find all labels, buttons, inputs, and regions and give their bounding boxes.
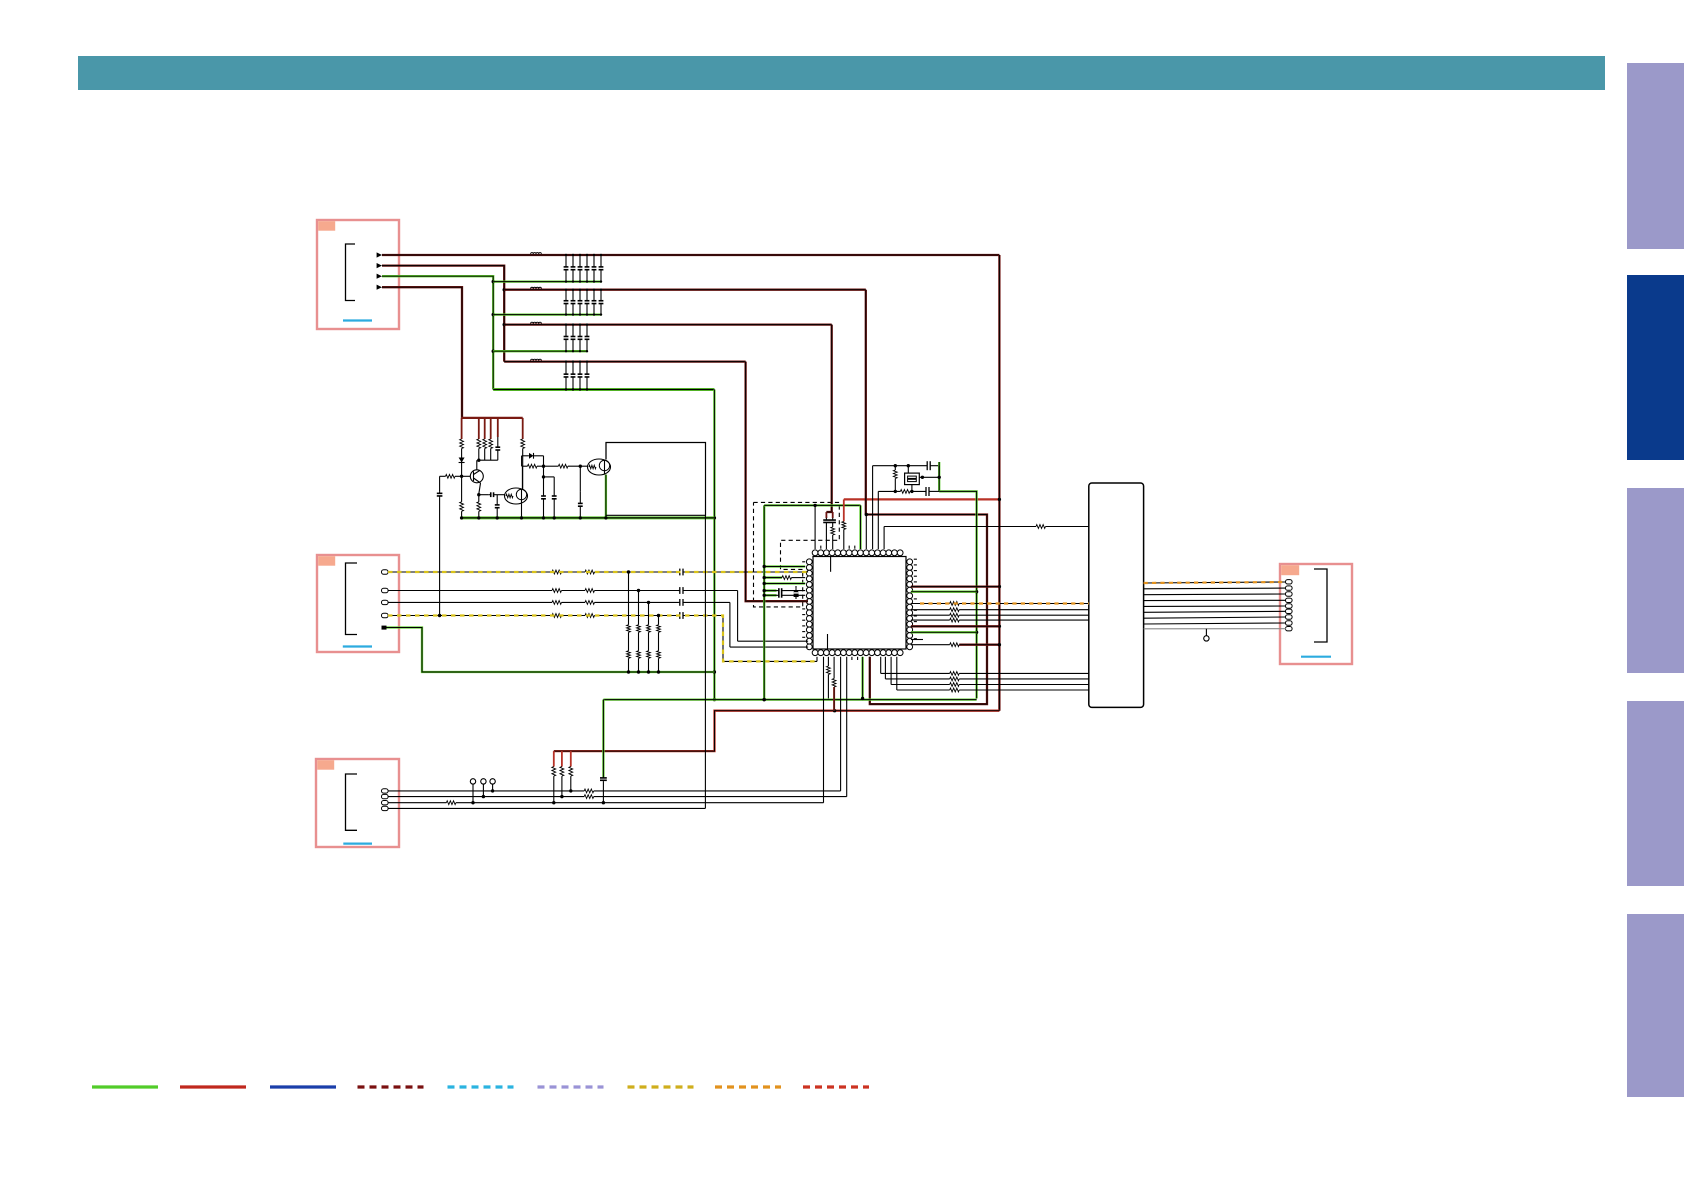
wire nc stub	[911, 639, 923, 641]
wire blk-J4 9 sense	[1144, 629, 1286, 636]
sidebar tab 5	[1627, 914, 1684, 1097]
IC U1 nc stubs	[802, 546, 917, 660]
junction net1-c	[998, 625, 1001, 628]
wire xtal to pin a	[872, 466, 874, 549]
wire Q2 emitter	[521, 504, 523, 518]
connector J2 pin 4	[382, 613, 389, 617]
wire net1 ICright e	[911, 625, 1000, 627]
wire net3 cluster link	[826, 511, 832, 513]
wire blk-J4 8	[1144, 623, 1286, 624]
wire J3.2	[388, 795, 847, 799]
connector J4 pin 2	[1286, 586, 1293, 590]
connector J1 pin 2	[377, 263, 382, 268]
legend purple dashed	[538, 1085, 604, 1088]
connector J2 link line	[343, 645, 372, 647]
resistor R14	[893, 466, 897, 492]
junction gnd-a	[492, 280, 495, 283]
junction J2.2 tap	[637, 589, 640, 592]
junction gnd-c	[492, 350, 495, 353]
wire J2.1 dash overlay	[388, 571, 808, 573]
wire gnd IC bottom	[861, 657, 863, 699]
sidebar tab 4	[1627, 701, 1684, 886]
IC U1 pin1 mark	[828, 557, 831, 650]
junction gnd-b	[492, 313, 495, 316]
resistor pair RP1	[627, 572, 631, 672]
connector J4 bracket	[1314, 569, 1327, 642]
capacitor C31	[830, 512, 836, 525]
resistor pair RP3	[647, 602, 651, 672]
junction J2.1 tap	[627, 570, 630, 573]
sidebar tab 3	[1627, 488, 1684, 673]
diode pair D3	[793, 586, 799, 599]
resistor R2	[477, 418, 481, 460]
connector J2 pin 5	[382, 626, 387, 630]
junction pullup-3	[569, 789, 572, 792]
wire net4 vertical	[746, 362, 808, 602]
resistor R4	[489, 418, 493, 460]
wire blk-J4 1 dash	[1144, 582, 1286, 583]
capacitor bank row1	[564, 254, 604, 283]
wire gnd bus row3	[493, 350, 587, 352]
wire net1 J1.1 horizontal	[382, 254, 999, 256]
wire net2 vertical	[865, 290, 867, 515]
wire J3.1	[388, 789, 841, 793]
test point TP2	[481, 779, 486, 797]
capacitor C41	[926, 487, 939, 496]
connector J4 pin 6	[1286, 609, 1293, 613]
pullup R32	[560, 751, 564, 797]
wire J2.3 signal	[388, 599, 808, 647]
connector J1 bracket	[346, 244, 356, 301]
test point TP4	[1204, 636, 1209, 641]
shield dashed boundary	[754, 502, 840, 607]
capacitor C21	[763, 593, 806, 598]
wire J2.5 ground	[387, 628, 715, 673]
wire blk-J4 6	[1144, 611, 1286, 612]
transistor Q3	[588, 459, 611, 475]
resistor R11	[763, 576, 806, 580]
wire sig dash ICright	[911, 602, 1089, 606]
wire J2.4 signal	[388, 612, 817, 661]
resistor R7	[522, 464, 544, 468]
wire net3 row3	[504, 323, 832, 325]
wire xtal right link	[919, 476, 939, 479]
junction J2.4 tap	[657, 614, 660, 617]
connector J1 link line	[343, 319, 372, 321]
wire J3.3	[388, 801, 824, 805]
wire blk-J4 4	[1144, 599, 1286, 601]
wire J3.3 to IC	[823, 657, 825, 803]
supply rail VR	[462, 417, 523, 419]
connector J3 pin 1	[382, 789, 389, 793]
wire gnd transistor bus	[462, 516, 715, 519]
wire sig ICright b	[911, 608, 1089, 612]
wire net1 lower bus	[554, 711, 1000, 751]
capacitor bank row3	[564, 323, 590, 352]
junction pullup-1	[552, 801, 555, 804]
wire gnd bus row1	[493, 280, 601, 282]
wire xtal to pin b	[877, 491, 879, 549]
sidebar tab 1	[1627, 63, 1684, 249]
wire net3 vertical	[831, 325, 833, 512]
wire fb down	[704, 515, 706, 808]
IC U1 pins	[806, 550, 912, 656]
legend red solid	[180, 1085, 246, 1088]
capacitor C20	[763, 588, 806, 593]
wire J3.4	[388, 807, 705, 809]
junction net2-b	[503, 323, 506, 326]
wire gnd IC-left vertical	[763, 505, 765, 699]
connector J4 pin 5	[1286, 604, 1293, 608]
connector J4 pin 7	[1286, 615, 1293, 619]
connector J2 pin 1	[382, 570, 389, 574]
junction xtal-g2	[975, 631, 978, 634]
wire gnd lower bus	[603, 698, 976, 700]
wire clk to block	[884, 525, 1089, 529]
connector J1 pin 1	[377, 252, 382, 257]
resistor R1	[460, 418, 464, 456]
inductor L2	[531, 287, 542, 288]
connector J3 pin 2	[382, 794, 389, 798]
wire net5 J1.4	[382, 287, 462, 418]
wire blk-J4 7	[1144, 617, 1286, 618]
connector J4 pin 8	[1286, 621, 1293, 625]
junction net2-a	[503, 288, 506, 291]
connector J3 pin 3	[382, 801, 389, 805]
wire gnd vertical x714	[713, 390, 715, 700]
diode D2	[522, 453, 544, 466]
pullup R31	[552, 751, 556, 803]
wire net4 row4	[504, 360, 745, 362]
resistor pair RP4	[657, 616, 661, 673]
wire IC top pin16 tap	[813, 504, 816, 549]
transistor Q1	[470, 470, 483, 483]
legend green solid	[92, 1085, 158, 1088]
resistor R5	[521, 418, 525, 489]
wire J3.1 to IC	[840, 657, 842, 791]
capacitor C12	[541, 477, 546, 518]
connector J1 pin 4	[377, 285, 382, 290]
capacitor C30	[823, 512, 829, 549]
junction net1-d	[833, 709, 836, 712]
connector J2 pin 2	[382, 588, 389, 592]
wire gnd IC pin tap	[859, 505, 861, 549]
connector J4 box	[1280, 564, 1352, 664]
wire sig ICright d	[911, 618, 1089, 622]
wire gnd J1.3 vertical	[382, 276, 493, 389]
wire sig ICbot c	[891, 657, 1089, 687]
junction gnd-d	[713, 516, 716, 519]
connector J3 box	[316, 759, 399, 847]
bus interface block FL1	[1089, 483, 1144, 707]
node bias bus	[477, 459, 498, 470]
capacitor bank row4	[564, 360, 590, 390]
connector J4 pin 1	[1286, 580, 1293, 584]
wire blk-J4 3	[1144, 593, 1286, 596]
feedback loop rect	[606, 443, 706, 516]
wire net1 ICright f	[911, 643, 1001, 647]
legend cyan dashed	[448, 1085, 514, 1088]
wire IC left gnd2	[763, 582, 806, 585]
wire gnd ICright b	[911, 631, 977, 633]
wire blk-J4 2	[1144, 587, 1286, 590]
wire node N2	[544, 476, 555, 478]
junction gnd bottom	[763, 697, 865, 702]
junction pullup-2	[560, 795, 563, 798]
wire Q2 base	[479, 492, 505, 497]
resistor R12	[831, 525, 835, 550]
wire sig ICright c	[911, 613, 1089, 617]
connector J4 pin 3	[1286, 592, 1293, 596]
inductor L1	[531, 253, 542, 254]
connector J4 pin 4	[1286, 598, 1293, 602]
connector J3 link line	[343, 842, 372, 844]
wire sig ICbot d	[897, 657, 1089, 692]
wire J2.4 dash overlay	[388, 616, 817, 662]
resistor R8	[544, 464, 589, 468]
connector J2 pin 3	[382, 600, 389, 604]
wire gnd bus row2	[493, 313, 601, 315]
diode D1	[459, 456, 465, 476]
connector J1 box	[317, 220, 399, 329]
resistor R3	[483, 418, 487, 460]
wire blk-J4 5	[1144, 605, 1286, 607]
junction gnd-e	[713, 670, 716, 673]
inductor L4	[531, 359, 542, 360]
resistor R15	[827, 657, 831, 699]
resistor pair RP2	[637, 591, 641, 673]
wire IC left gnd1	[763, 565, 806, 568]
wire sig ICbot b	[885, 657, 1088, 681]
wire xtal top	[873, 464, 928, 467]
IC U1 body	[813, 557, 906, 650]
wire net1 vertical right	[998, 255, 1000, 711]
wire gnd IC top bus	[764, 504, 860, 506]
legend red dashed	[803, 1085, 869, 1088]
capacitor C15	[437, 476, 443, 615]
connector J4 pin 9	[1286, 627, 1293, 631]
legend orange dashed	[715, 1085, 781, 1088]
resistor R13	[842, 499, 846, 549]
capacitor bank row2	[564, 289, 604, 316]
wire xtal right	[938, 462, 941, 491]
junction xtal-g1	[975, 590, 978, 593]
capacitor C11	[495, 495, 500, 518]
junctions ground bus	[627, 670, 660, 673]
capacitor C14	[578, 466, 583, 518]
junction gnd-f	[713, 698, 716, 701]
wire J2.2 signal	[388, 587, 808, 641]
junction net2-c	[865, 513, 868, 516]
legend blue solid	[270, 1085, 336, 1088]
wire net2 row2	[504, 289, 866, 291]
sidebar tab 2 (active)	[1627, 275, 1684, 460]
crystal X1	[905, 466, 920, 492]
wire J2.1 signal	[388, 569, 808, 576]
capacitor C13	[552, 477, 557, 518]
wire Q3 collector	[605, 443, 607, 460]
connector J4 link line	[1301, 656, 1331, 658]
capacitor C10	[495, 418, 500, 460]
connector J1 pin 3	[377, 274, 382, 279]
inductor L3	[531, 322, 542, 323]
wire clk pin tap	[883, 527, 885, 550]
wire sig ICbot a	[881, 657, 1089, 676]
wire xtal ground link	[939, 491, 976, 698]
transistor Q2	[505, 488, 528, 504]
connector J2 box	[317, 555, 399, 652]
junction net1-a	[998, 498, 1001, 501]
wire Q1 emitter	[477, 483, 481, 518]
page header bar	[78, 56, 1605, 90]
wire node N1	[542, 456, 545, 479]
test point TP3	[490, 779, 495, 791]
wire Q1 base	[440, 474, 471, 478]
junction J2.3 tap	[647, 601, 650, 604]
resistor R6	[460, 476, 464, 518]
junction net1-b	[998, 585, 1001, 588]
connector J3 bracket	[346, 774, 358, 830]
junctions transistor bus	[460, 516, 608, 519]
connector J3 pin 4	[382, 806, 389, 810]
wire net2 J1.2	[382, 266, 504, 362]
pullup R33	[569, 751, 573, 791]
capacitor C40	[927, 461, 939, 470]
wire Q3 emitter	[605, 475, 607, 518]
legend yellow dashed	[628, 1085, 694, 1088]
connector J2 bracket	[346, 563, 358, 635]
wire xtal bottom	[878, 490, 926, 494]
junction C15	[438, 614, 441, 617]
resistor R16	[832, 657, 836, 711]
wire gnd main bus	[493, 388, 714, 391]
wire net2 pin tap	[865, 515, 867, 550]
wire gnd ICright a	[911, 591, 977, 593]
wire net1 VDD branch	[844, 498, 1000, 500]
test point TP1	[470, 779, 475, 803]
wire net1 ICright a	[911, 585, 1000, 587]
legend maroon dashed	[358, 1085, 424, 1088]
wire net2 mid	[866, 515, 987, 705]
junction lower-a	[763, 698, 766, 701]
wire J3.2 to IC	[846, 657, 848, 797]
wire Q2 collector	[521, 466, 523, 489]
wire gnd J3 branch	[600, 700, 607, 803]
